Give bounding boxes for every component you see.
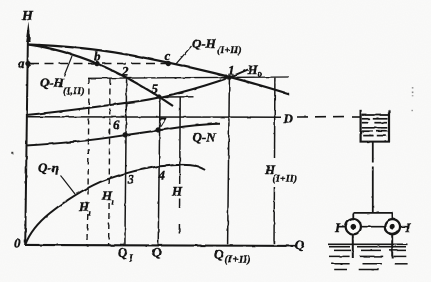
svg-text:3: 3 bbox=[127, 171, 135, 186]
leader line Q-H(I,II) bbox=[64, 56, 72, 76]
efficiency curve Q-eta bbox=[25, 165, 205, 245]
vertical line at Q bbox=[158, 96, 160, 245]
tank water row 5 bbox=[362, 130, 373, 132]
point c bbox=[166, 61, 171, 66]
sump water line row C bbox=[329, 255, 350, 257]
power curve Q-N bbox=[26, 124, 220, 146]
dashed horizontal a-b-c bbox=[30, 63, 168, 65]
leader line Q-H(I+II) bbox=[176, 46, 192, 65]
tank water row 4 bbox=[362, 127, 387, 129]
pump I circle bbox=[346, 219, 361, 234]
svg-text:H: H bbox=[21, 9, 34, 24]
vertical line H_(I+II) lower bbox=[273, 187, 275, 244]
vertical line H (solid part) bbox=[179, 97, 182, 184]
svg-text:Q-H: Q-H bbox=[40, 75, 65, 90]
svg-text:b: b bbox=[94, 49, 101, 64]
pump II circle bbox=[385, 219, 400, 234]
vertical line at Q_(I+II) bbox=[228, 78, 230, 245]
point 1 bbox=[227, 75, 232, 80]
D line stub at tank bbox=[352, 116, 361, 118]
D line solid part (static head level) bbox=[26, 116, 281, 118]
svg-text:1: 1 bbox=[228, 63, 235, 78]
D line dashed part to tank bbox=[297, 116, 351, 119]
dashed vertical H1a at x=88 bbox=[88, 79, 89, 197]
svg-text:0: 0 bbox=[14, 236, 21, 251]
tank water row 2 bbox=[362, 118, 370, 120]
X axis (Q) bbox=[25, 245, 296, 246]
svg-text:Q: Q bbox=[214, 247, 224, 262]
svg-text:D: D bbox=[283, 111, 294, 126]
point a bbox=[25, 61, 30, 66]
manifold right drop bbox=[391, 212, 393, 220]
svg-text:ı: ı bbox=[89, 208, 91, 218]
Y axis (H) bbox=[25, 30, 28, 245]
tank water row 1 bbox=[362, 114, 388, 116]
tank bottom bbox=[360, 141, 391, 143]
svg-text:ı: ı bbox=[112, 197, 114, 207]
single pump curve Q-H(I,II) bbox=[28, 45, 173, 107]
point b bbox=[94, 61, 99, 66]
tank water row 3 bbox=[362, 122, 368, 124]
svg-text:c: c bbox=[165, 48, 171, 63]
discharge pipe upper bbox=[372, 142, 374, 163]
leader line Q-eta bbox=[61, 176, 75, 194]
svg-text:o: o bbox=[258, 69, 262, 79]
sump water line row E bbox=[334, 269, 347, 271]
svg-text:2: 2 bbox=[121, 64, 129, 79]
point 5 bbox=[157, 94, 161, 98]
dashed vertical H1b at x=109.5 bbox=[108, 79, 111, 188]
vertical line H_(I+II) upper bbox=[274, 78, 276, 158]
svg-text:(I+II): (I+II) bbox=[225, 255, 251, 266]
vertical line at Q_I bbox=[125, 77, 127, 245]
scan speck left bbox=[11, 152, 13, 154]
svg-text:I: I bbox=[405, 220, 412, 235]
sump water line row A2 bbox=[329, 246, 350, 248]
svg-text:7: 7 bbox=[159, 115, 166, 130]
svg-text:Q-H: Q-H bbox=[192, 36, 217, 51]
svg-text:I: I bbox=[128, 254, 133, 264]
pump I suction pipe bbox=[352, 234, 354, 258]
svg-text:Q-η: Q-η bbox=[38, 160, 59, 175]
svg-text:I: I bbox=[334, 220, 341, 235]
Y axis arrowhead bbox=[26, 22, 31, 43]
svg-text:Q-N: Q-N bbox=[193, 130, 217, 145]
svg-text:(I+II): (I+II) bbox=[217, 45, 242, 56]
horizontal line through point 1 (head H_o level) bbox=[88, 77, 289, 78]
svg-text:6: 6 bbox=[113, 117, 120, 132]
scan specks right margin bbox=[412, 87, 414, 89]
short horizontal through point 5 bbox=[158, 96, 194, 98]
manifold horizontal bbox=[353, 212, 392, 214]
sump water line row A bbox=[328, 243, 408, 245]
svg-text:Q: Q bbox=[152, 245, 162, 260]
svg-text:Q: Q bbox=[295, 237, 305, 252]
center line through pumps bbox=[339, 226, 409, 228]
sump water line row B bbox=[334, 249, 351, 251]
svg-text:(I,II): (I,II) bbox=[63, 86, 85, 97]
svg-text:4: 4 bbox=[158, 168, 166, 183]
pump II suction pipe bbox=[391, 234, 393, 258]
svg-text:(I+II): (I+II) bbox=[273, 174, 298, 185]
svg-text:5: 5 bbox=[152, 81, 159, 96]
combined pump curve Q-H(I+II) bbox=[28, 45, 289, 95]
svg-text:H: H bbox=[247, 62, 259, 77]
svg-text:H: H bbox=[171, 184, 183, 199]
manifold left drop bbox=[352, 212, 354, 220]
tank right wall bbox=[388, 110, 390, 142]
tank left wall bbox=[360, 110, 362, 142]
discharge pipe lower bbox=[372, 167, 374, 214]
sump water line row D bbox=[332, 263, 350, 265]
tank water row 6 bbox=[363, 135, 373, 137]
point 6 bbox=[123, 132, 128, 137]
svg-text:Q: Q bbox=[118, 245, 128, 260]
svg-text:a: a bbox=[18, 56, 25, 71]
point 7 bbox=[156, 127, 161, 132]
vertical line H (dashed part) bbox=[178, 199, 180, 245]
system (network) curve bbox=[26, 70, 248, 116]
